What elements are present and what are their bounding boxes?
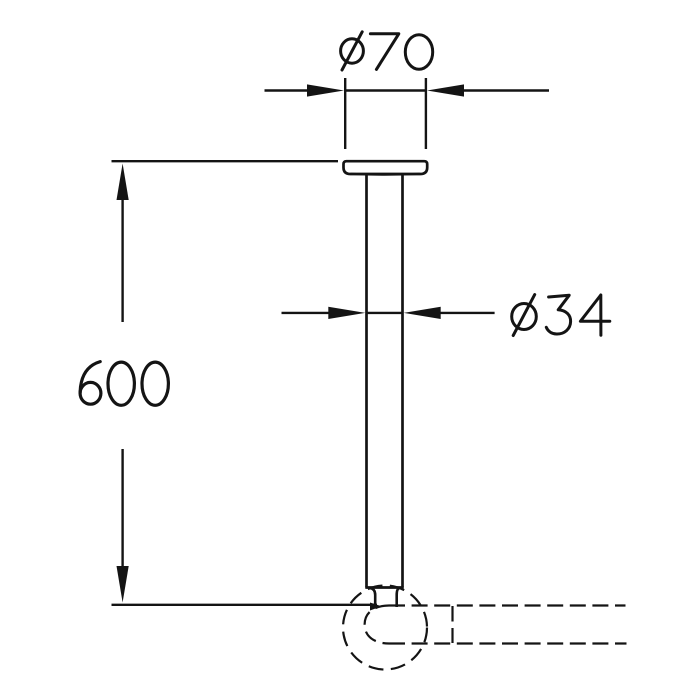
dimension line 600 upper segment xyxy=(121,185,123,322)
dimension label 600 xyxy=(80,362,168,406)
pipe left wall xyxy=(365,174,368,587)
extension line ø70 right xyxy=(425,78,427,149)
ball joint dashed circle xyxy=(343,586,427,670)
dimension line ø34 middle segment (crosses pipe) xyxy=(366,312,403,314)
spout dashed joint line xyxy=(451,606,453,643)
dimension line ø70 middle segment xyxy=(345,89,426,91)
arrowhead 600 top (points up) xyxy=(117,164,129,201)
arrowhead ø34 right (points left) xyxy=(404,307,441,319)
spout dashed bottom line xyxy=(389,642,627,644)
arrowhead 600 bottom (points down) xyxy=(117,566,129,603)
dimension line ø34 left segment xyxy=(282,312,353,314)
arrowhead ø70 right (points left) xyxy=(427,84,464,96)
dimension line ø70 left segment xyxy=(265,89,331,91)
spout dashed rounded end xyxy=(365,606,389,644)
dimension label ø34 xyxy=(512,295,610,336)
dimension line ø34 right segment xyxy=(417,312,495,314)
dimension line ø70 right segment xyxy=(441,89,549,91)
arrowhead ø34 left (points right) xyxy=(328,307,365,319)
pipe right wall xyxy=(401,174,404,587)
dimension line 600 lower segment xyxy=(121,449,123,580)
ceiling flange xyxy=(344,161,428,174)
neck right wall with fillet xyxy=(397,588,400,607)
spout dashed top line xyxy=(389,604,626,606)
pipe bottom end line xyxy=(365,586,403,589)
extension line 600 top (ceiling plane) xyxy=(112,160,339,162)
extension line ø70 left xyxy=(344,78,346,149)
flange bottom curve xyxy=(351,173,420,176)
dimension label ø70 xyxy=(341,32,433,70)
arrowhead ø70 left (points right) xyxy=(307,84,344,96)
neck left wall with fillet xyxy=(370,588,376,607)
extension line 600 bottom xyxy=(112,604,378,606)
neck to spout junction fillet xyxy=(370,603,382,611)
